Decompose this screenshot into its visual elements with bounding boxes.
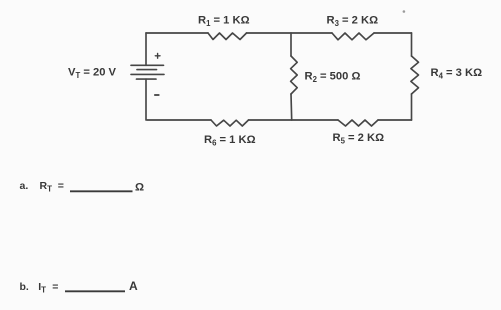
- svg-text:b.: b.: [20, 281, 29, 293]
- svg-text:R5 = 2 KΩ: R5 = 2 KΩ: [333, 132, 385, 146]
- wire left: bottom corner up to battery minus plate: [145, 79, 147, 120]
- wire bottom: corner to R5: [378, 119, 412, 121]
- wire bottom: R5 to R6 through node: [249, 119, 339, 121]
- question a: RT = ___ Ω: [20, 180, 145, 194]
- resistor R4: [411, 56, 419, 94]
- battery plus sign: [155, 53, 160, 58]
- scan speck near R3: [403, 10, 406, 13]
- battery VT plate 2 short: [137, 69, 157, 71]
- svg-text:Ω: Ω: [135, 182, 144, 194]
- resistor R6: [211, 120, 249, 126]
- svg-text:RT=: RT=: [40, 180, 64, 193]
- resistor R1: [208, 33, 247, 40]
- wire bottom: R6 to bottom-left corner: [147, 119, 211, 121]
- battery minus sign: [155, 94, 159, 96]
- wire left: battery plus plate up to top corner: [145, 33, 147, 65]
- wire: R2 bottom to junction on bottom wire: [290, 94, 293, 120]
- question b: IT = ___ A: [20, 279, 139, 294]
- svg-text:R1 = 1 KΩ: R1 = 1 KΩ: [198, 14, 250, 28]
- wire top: R3 to top-right corner: [374, 32, 412, 34]
- svg-text:a.: a.: [20, 180, 29, 192]
- battery VT plate 4 short: [137, 78, 157, 80]
- resistor R2: [291, 56, 298, 94]
- wire top: R1 to R3 through node: [247, 32, 333, 34]
- svg-text:R3 = 2 KΩ: R3 = 2 KΩ: [327, 14, 379, 28]
- resistor R5: [338, 120, 378, 126]
- battery VT plate 3 long: [131, 73, 164, 75]
- resistor R3: [332, 33, 374, 40]
- wire top: battery to R1: [146, 32, 208, 34]
- svg-text:VT = 20 V: VT = 20 V: [68, 66, 117, 80]
- wire right: corner down to R4: [411, 33, 413, 56]
- svg-text:A: A: [129, 279, 138, 293]
- node: R2 top junction wire down: [290, 33, 292, 56]
- svg-text:R2 = 500 Ω: R2 = 500 Ω: [305, 71, 361, 85]
- svg-text:R6 = 1 KΩ: R6 = 1 KΩ: [204, 134, 256, 148]
- battery VT plate 1 long: [131, 64, 164, 66]
- wire right: R4 to bottom-right corner: [411, 94, 413, 120]
- svg-text:IT=: IT=: [38, 281, 58, 294]
- svg-text:R4 = 3 KΩ: R4 = 3 KΩ: [431, 67, 483, 81]
